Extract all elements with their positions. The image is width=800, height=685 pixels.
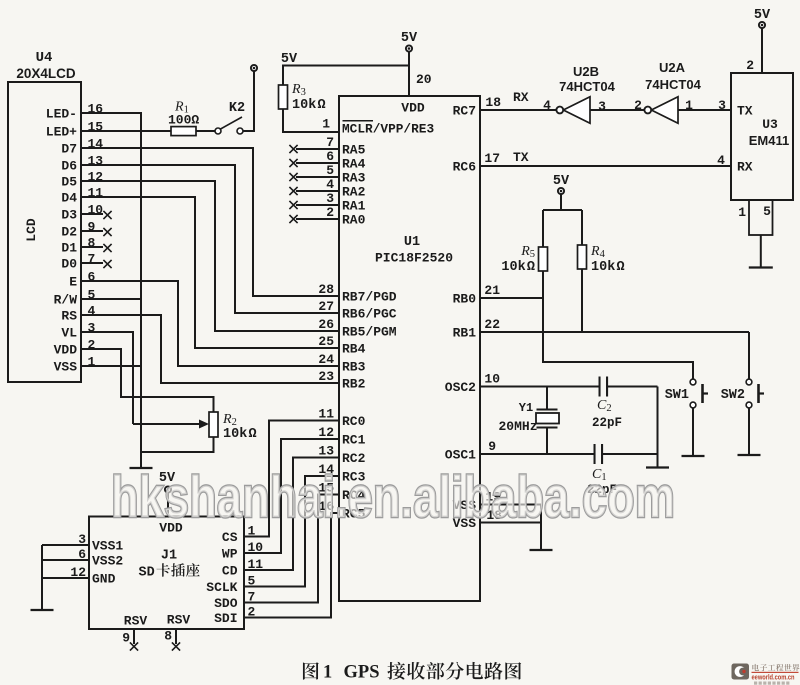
wire 5V rail to VDD: [283, 66, 409, 86]
capacitor C1: [594, 444, 596, 464]
svg-text:SD: SD: [139, 566, 155, 581]
svg-text:9: 9: [122, 631, 130, 646]
wire RA4 stub: [296, 162, 339, 164]
svg-text:U2B: U2B: [573, 64, 599, 79]
svg-text:RB5/PGM: RB5/PGM: [342, 325, 397, 340]
wire RC7 to U2B: [480, 109, 556, 111]
svg-text:U1: U1: [404, 235, 420, 250]
svg-text:5: 5: [88, 288, 96, 303]
svg-text:1: 1: [323, 663, 332, 683]
wire RS to RB2: [81, 315, 339, 383]
wire J1 SDO to PIC: [244, 495, 339, 603]
wire U2A to U3 TX: [678, 109, 731, 111]
svg-text:VL: VL: [61, 326, 77, 341]
svg-text:11: 11: [88, 186, 104, 201]
svg-text:1: 1: [322, 117, 330, 132]
svg-text:10kΩ: 10kΩ: [292, 98, 326, 113]
wire 5V to U3 pin2: [761, 29, 763, 74]
svg-text:RB1: RB1: [453, 326, 477, 341]
wire VSS19 wire: [480, 504, 541, 506]
svg-text:D0: D0: [61, 257, 77, 272]
svg-text:27: 27: [318, 299, 334, 314]
svg-text:3: 3: [718, 98, 726, 113]
svg-text:Y1: Y1: [519, 401, 533, 415]
wire 5V to J1 VDD: [167, 493, 169, 517]
svg-text:22: 22: [484, 317, 500, 332]
svg-text:18: 18: [485, 95, 501, 110]
svg-text:RX: RX: [737, 160, 753, 175]
inverter U2A 74HCT04: [651, 97, 678, 123]
wire R3 to MCLR pin1: [283, 109, 339, 132]
wire VSS8 wire: [480, 522, 541, 524]
svg-text:D5: D5: [61, 175, 77, 190]
wire SW1 to ground: [692, 408, 694, 455]
node 5V PIC VDD: [406, 45, 412, 51]
svg-text:13: 13: [318, 444, 334, 459]
svg-text:TX: TX: [513, 150, 529, 165]
svg-text:U4: U4: [36, 50, 53, 66]
svg-text:D7: D7: [61, 142, 77, 157]
svg-text:3: 3: [598, 99, 606, 114]
svg-text:10kΩ: 10kΩ: [223, 427, 257, 442]
svg-text:OSC1: OSC1: [445, 448, 476, 463]
svg-text:13: 13: [88, 154, 104, 169]
svg-text:GND: GND: [92, 572, 116, 587]
wire OSC1 wire: [480, 453, 594, 455]
wire VDD to R2 top: [81, 349, 214, 412]
svg-text:RC7: RC7: [453, 104, 476, 119]
svg-text:5V: 5V: [553, 174, 570, 189]
svg-text:12: 12: [88, 170, 104, 185]
svg-text:RB3: RB3: [342, 360, 366, 375]
wire osc ground rail: [657, 387, 659, 468]
wire RA3 stub: [296, 176, 339, 178]
wire lcd10: [81, 213, 103, 215]
svg-text:VDD: VDD: [54, 343, 78, 358]
wire U2B to U2A: [590, 109, 644, 111]
svg-text:VSS: VSS: [54, 360, 78, 375]
svg-text:E: E: [69, 275, 77, 290]
wire lcd8: [81, 246, 103, 248]
svg-text:TX: TX: [737, 104, 753, 119]
ground LCD ground: [130, 467, 153, 469]
svg-text:K2: K2: [229, 101, 245, 116]
wire RB1 wire: [480, 331, 749, 333]
svg-text:23: 23: [318, 369, 334, 384]
ground J1 ground: [31, 609, 54, 611]
svg-text:RSV: RSV: [167, 613, 191, 628]
svg-text:RX: RX: [513, 90, 529, 105]
svg-text:WP: WP: [222, 547, 238, 562]
wire J1 CD to PIC: [244, 458, 339, 571]
capacitor C2: [599, 377, 601, 397]
svg-text:D6: D6: [61, 159, 77, 174]
svg-text:RA5: RA5: [342, 143, 366, 158]
wire VSS to ground: [540, 505, 542, 550]
svg-text:RC0: RC0: [342, 414, 366, 429]
svg-text:VDD: VDD: [401, 101, 425, 116]
svg-text:4: 4: [326, 177, 334, 192]
svg-text:26: 26: [318, 317, 334, 332]
wire RSV9 stub: [133, 629, 135, 644]
svg-text:3: 3: [88, 321, 96, 336]
svg-text:RB7/PGD: RB7/PGD: [342, 290, 397, 305]
svg-text:RB4: RB4: [342, 342, 366, 357]
svg-text:12: 12: [318, 425, 334, 440]
resistor R2: [209, 412, 218, 437]
wire lcd7: [81, 262, 103, 264]
svg-text:OSC2: OSC2: [445, 380, 476, 395]
svg-text:22pF: 22pF: [592, 416, 622, 430]
svg-text:25: 25: [318, 334, 334, 349]
svg-text:eeworld.com.cn: eeworld.com.cn: [752, 673, 795, 682]
svg-text:CD: CD: [222, 564, 238, 579]
wire R4 bottom to RB1: [581, 269, 583, 332]
wire E to RB3: [81, 281, 339, 366]
wire RSV8 stub: [175, 629, 177, 644]
wire R1 to K2: [196, 130, 215, 132]
svg-text:D4: D4: [61, 191, 77, 206]
svg-text:15: 15: [88, 120, 104, 135]
svg-text:D3: D3: [61, 208, 77, 223]
svg-text:RS: RS: [61, 309, 77, 324]
svg-text:RA2: RA2: [342, 185, 366, 200]
wire 5V to R5/R4 tops: [560, 195, 562, 211]
pushbutton switch SW1: [690, 379, 696, 385]
wire RA5 stub: [296, 148, 339, 150]
wire J1 WP to PIC: [244, 439, 339, 553]
wire RA0 stub: [296, 218, 339, 220]
svg-text:16: 16: [88, 102, 104, 117]
svg-text:RB6/PGC: RB6/PGC: [342, 307, 397, 322]
wire OSC2 wire: [480, 386, 599, 388]
wire R5 bottom to SW1: [543, 271, 693, 379]
wire D7 to RB7: [81, 148, 339, 296]
wire RA2 stub: [296, 190, 339, 192]
svg-text:RC6: RC6: [453, 160, 477, 175]
wire R2 bottom to ground rail: [141, 437, 214, 452]
wire RA1 stub: [296, 204, 339, 206]
svg-text:VSS2: VSS2: [92, 554, 123, 569]
wire 5V to VDD pin20: [408, 52, 410, 96]
svg-text:100Ω: 100Ω: [168, 113, 199, 128]
wire J1 VSS2 wire: [42, 559, 89, 561]
SD card socket J1: [89, 517, 244, 630]
svg-text:2: 2: [88, 338, 96, 353]
node 5V tap over K2: [251, 65, 257, 71]
wire SW2 to ground: [748, 408, 750, 455]
svg-text:28: 28: [318, 282, 334, 297]
wire C2 to gnd rail: [607, 386, 657, 388]
ground SW1 ground: [682, 455, 705, 457]
svg-text:21: 21: [484, 283, 500, 298]
wire J1 ground rail: [41, 545, 43, 609]
svg-text:RA0: RA0: [342, 213, 366, 228]
wire VSS to ground rail: [81, 365, 141, 367]
svg-text:2: 2: [326, 205, 334, 220]
svg-text:20MHz: 20MHz: [498, 419, 537, 434]
wire LED- to ground rail: [81, 113, 141, 467]
svg-text:EM411: EM411: [749, 133, 789, 148]
wire D5 to RB5: [81, 181, 339, 331]
caption: [303, 662, 319, 679]
wire J1 CS to PIC: [244, 421, 339, 537]
svg-text:VSS1: VSS1: [92, 539, 123, 554]
wire to R5: [542, 210, 544, 247]
svg-text:RA3: RA3: [342, 171, 366, 186]
svg-text:4: 4: [88, 304, 96, 319]
svg-text:5: 5: [326, 163, 334, 178]
svg-text:8: 8: [88, 236, 96, 251]
svg-text:1: 1: [738, 205, 746, 220]
svg-text:RC1: RC1: [342, 433, 366, 448]
wire J1 SDI to PIC: [244, 513, 339, 618]
svg-text:17: 17: [484, 151, 500, 166]
wire K2 to 5V tap: [243, 72, 254, 132]
logo eeworld: [732, 664, 800, 685]
svg-text:2: 2: [746, 58, 754, 73]
wire J1 SCLK to PIC: [244, 476, 339, 587]
svg-text:LED-: LED-: [46, 107, 77, 122]
svg-text:4: 4: [543, 98, 551, 113]
wire R/W to ground rail: [81, 298, 141, 300]
svg-text:7: 7: [326, 135, 334, 150]
wire LED+ to R1: [81, 130, 171, 132]
svg-text:4: 4: [717, 153, 725, 168]
wire U3 conn to ground: [760, 235, 762, 267]
svg-text:3: 3: [326, 191, 334, 206]
svg-text:CS: CS: [222, 530, 238, 545]
svg-text:U2A: U2A: [659, 60, 686, 75]
svg-text:24: 24: [318, 352, 334, 367]
wire to R4: [581, 210, 583, 245]
wire C1 to gnd rail: [602, 453, 657, 455]
node 5V U3: [759, 22, 765, 28]
svg-text:5: 5: [763, 204, 771, 219]
wire D4 to RB4: [81, 197, 339, 348]
svg-text:14: 14: [88, 137, 104, 152]
svg-text:LED+: LED+: [46, 125, 77, 140]
svg-text:74HCT04: 74HCT04: [645, 77, 701, 92]
ground PIC ground: [530, 549, 553, 551]
svg-text:SW1: SW1: [665, 388, 689, 403]
U3 antenna connector pins 1,5: [749, 200, 773, 235]
svg-text:7: 7: [88, 252, 96, 267]
svg-text:10kΩ: 10kΩ: [501, 260, 535, 275]
LCD module U4: [8, 82, 81, 382]
node 5V J1: [165, 486, 171, 492]
wire J1 VSS1 wire: [42, 544, 89, 546]
wire lcd9: [81, 230, 103, 232]
wire Y1 to OSC1: [546, 428, 548, 455]
svg-text:RB0: RB0: [453, 292, 477, 307]
svg-text:PIC18F2520: PIC18F2520: [375, 251, 453, 266]
svg-text:U3: U3: [762, 117, 778, 132]
svg-text:SDO: SDO: [214, 596, 238, 611]
svg-text:hkshanhai.en.alibaba.com: hkshanhai.en.alibaba.com: [111, 465, 675, 530]
svg-text:9: 9: [88, 220, 96, 235]
svg-text:74HCT04: 74HCT04: [559, 79, 615, 94]
svg-text:6: 6: [326, 149, 334, 164]
resistor R4: [578, 245, 587, 269]
svg-text:20X4LCD: 20X4LCD: [16, 66, 76, 81]
svg-text:10kΩ: 10kΩ: [591, 260, 625, 275]
node 5V R5R4: [558, 188, 564, 194]
wire R5R4 top rail: [543, 209, 582, 211]
svg-text:MCLR/VPP/RE3: MCLR/VPP/RE3: [342, 122, 434, 137]
wire D6 to RB6: [81, 165, 339, 313]
GPS module U3 EM411: [731, 73, 793, 200]
svg-text:D1: D1: [61, 241, 77, 256]
wire RB1 to SW2 drop: [748, 332, 750, 379]
svg-text:1: 1: [88, 355, 96, 370]
svg-text:2: 2: [634, 98, 642, 113]
svg-text:6: 6: [88, 270, 96, 285]
svg-text:10: 10: [88, 203, 104, 218]
wire OSC2 to Y1: [546, 387, 548, 410]
svg-text:20: 20: [416, 72, 432, 87]
svg-text:SDI: SDI: [214, 611, 237, 626]
svg-text:RSV: RSV: [124, 614, 148, 629]
svg-text:11: 11: [318, 407, 334, 422]
svg-text:RA4: RA4: [342, 157, 366, 172]
wire RC6 to U3 RX: [480, 165, 731, 167]
svg-text:D2: D2: [61, 225, 77, 240]
resistor R3: [279, 85, 288, 109]
svg-text:LCD: LCD: [24, 218, 39, 242]
svg-text:GPS: GPS: [344, 663, 380, 683]
svg-text:R/W: R/W: [54, 293, 78, 308]
pushbutton switch SW2: [746, 379, 752, 385]
svg-text:5V: 5V: [401, 31, 418, 46]
wire RB0 wire: [480, 297, 543, 299]
svg-text:RC2: RC2: [342, 451, 366, 466]
svg-text:RA1: RA1: [342, 199, 366, 214]
ground U3 ground: [749, 266, 773, 268]
switch K2: [215, 128, 221, 134]
inverter U2B 74HCT04: [563, 97, 590, 123]
svg-text:J1: J1: [161, 549, 177, 564]
wire J1 GND wire: [42, 577, 89, 579]
resistor R5: [539, 247, 548, 271]
svg-text:SW2: SW2: [721, 388, 745, 403]
svg-text:10: 10: [484, 372, 500, 387]
svg-text:8: 8: [164, 629, 172, 644]
microcontroller U1 PIC18F2520: [339, 96, 480, 601]
wire VL to R2 wiper: [81, 332, 133, 424]
svg-text:RB2: RB2: [342, 377, 366, 392]
wire wiper: [133, 423, 199, 425]
svg-text:9: 9: [488, 439, 496, 454]
ground osc ground: [646, 466, 669, 468]
ground SW2 ground: [738, 454, 761, 456]
svg-text:5V: 5V: [754, 8, 771, 23]
svg-text:SCLK: SCLK: [206, 580, 237, 595]
